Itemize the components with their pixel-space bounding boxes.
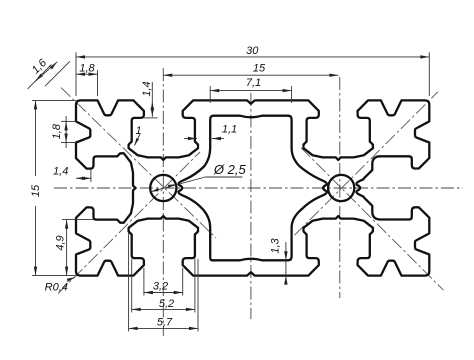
leader O2,5 core hole diameter — [205, 176, 242, 178]
svg-text:15: 15 — [253, 63, 266, 75]
left cell diagonal centerline BL-TR — [58, 152, 200, 294]
svg-text:R0,4: R0,4 — [45, 282, 68, 294]
right cell vertical centerline — [339, 77, 341, 298]
dimension 1,4 slot lip depth (top) — [144, 117, 158, 119]
svg-text:1,4: 1,4 — [141, 81, 153, 96]
dimension 5,7 slot undercut width — [128, 232, 130, 331]
dimension 1,3 bottom wall thickness — [285, 242, 287, 284]
svg-text:5,2: 5,2 — [159, 298, 174, 310]
svg-text:15: 15 — [30, 184, 42, 197]
svg-text:Ø 2,5: Ø 2,5 — [213, 162, 247, 177]
svg-text:1,6: 1,6 — [30, 56, 50, 76]
horizontal centerline — [54, 187, 463, 189]
svg-text:1,8: 1,8 — [51, 123, 63, 139]
profile outer contour (15x30 extrusion with T-slots) — [76, 100, 429, 275]
svg-text:1: 1 — [135, 125, 141, 137]
dimension 3,2 slot opening — [143, 268, 145, 296]
left cell diagonal centerline TL-BR — [61, 88, 216, 238]
left core hole O2.5 — [150, 175, 176, 201]
dimension 1,8 corner to notch (top face) — [97, 70, 99, 96]
dimension 4,9 cavity depth — [62, 219, 94, 221]
svg-text:1,4: 1,4 — [53, 166, 68, 178]
svg-text:30: 30 — [246, 45, 259, 57]
dimension 5,2 slot cavity width — [131, 259, 133, 312]
dimension 30 overall width — [75, 52, 77, 96]
right cell diagonal centerline BL-TR — [295, 92, 439, 236]
profile center vertical centerline — [250, 93, 252, 319]
right cell diagonal centerline TL-BR — [301, 148, 443, 290]
svg-text:1,3: 1,3 — [270, 237, 282, 253]
right core hole O2.5 — [328, 175, 354, 201]
svg-text:3,2: 3,2 — [153, 281, 168, 293]
dimension 7,1 central cavity width — [209, 86, 211, 103]
leader R0,4 corner radius — [67, 277, 75, 281]
svg-text:7,1: 7,1 — [246, 77, 261, 89]
dimension 1,8 notch width (left face) — [61, 120, 76, 122]
left cell vertical centerline — [162, 68, 164, 336]
dimension 1,6 corner chamfer (diagonal) — [28, 64, 52, 89]
leader 1 web thickness — [135, 134, 141, 146]
svg-text:1,8: 1,8 — [79, 63, 95, 75]
svg-text:1,1: 1,1 — [222, 124, 237, 136]
dimension 15 axis distance — [163, 74, 338, 76]
dimension 1,4 slot lip depth (left) — [90, 170, 92, 183]
svg-text:5,7: 5,7 — [157, 317, 173, 329]
dimension 15 overall height — [32, 99, 76, 101]
dimension 1,1 wall thickness — [184, 138, 197, 140]
svg-text:4,9: 4,9 — [55, 235, 67, 250]
central closed cavity — [179, 116, 327, 261]
